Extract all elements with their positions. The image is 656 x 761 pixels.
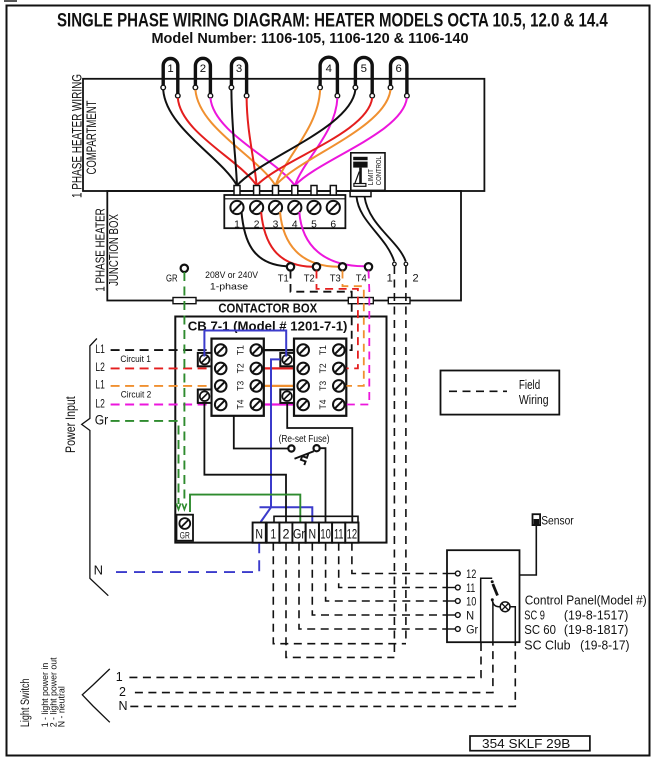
svg-text:2: 2	[283, 526, 290, 541]
svg-text:Field: Field	[519, 377, 540, 392]
svg-text:Power Input: Power Input	[63, 396, 78, 453]
svg-text:L2: L2	[95, 362, 105, 374]
svg-text:CONTROL: CONTROL	[376, 156, 383, 185]
svg-text:Wiring: Wiring	[519, 392, 549, 407]
svg-text:CONTACTOR BOX: CONTACTOR BOX	[218, 301, 317, 316]
svg-text:T4: T4	[236, 400, 247, 410]
svg-text:1: 1	[271, 526, 277, 541]
svg-text:Gr: Gr	[95, 412, 109, 427]
svg-text:N: N	[118, 699, 127, 713]
svg-text:2: 2	[119, 685, 126, 699]
svg-text:6: 6	[396, 63, 402, 75]
svg-text:N: N	[94, 563, 103, 578]
svg-text:JUNCTION BOX: JUNCTION BOX	[106, 214, 121, 286]
svg-text:SC Club: SC Club	[524, 637, 570, 652]
svg-text:12: 12	[466, 569, 476, 581]
svg-text:1: 1	[387, 273, 393, 285]
svg-text:T2: T2	[236, 363, 247, 373]
svg-text:208V or 240V: 208V or 240V	[205, 270, 258, 281]
svg-text:4: 4	[292, 220, 298, 231]
svg-text:T3: T3	[330, 273, 341, 285]
svg-text:L1: L1	[95, 344, 105, 356]
svg-text:T1: T1	[278, 273, 289, 285]
svg-text:Circuit 1: Circuit 1	[120, 354, 151, 365]
svg-text:Control Panel(Model #): Control Panel(Model #)	[525, 592, 647, 607]
svg-text:T4: T4	[356, 273, 367, 285]
svg-text:SINGLE PHASE WIRING DIAGRAM: H: SINGLE PHASE WIRING DIAGRAM: HEATER MODE…	[57, 10, 608, 31]
svg-text:1: 1	[116, 670, 123, 684]
svg-text:2: 2	[254, 220, 260, 231]
svg-text:SC 9: SC 9	[524, 607, 545, 622]
svg-text:11: 11	[334, 526, 344, 541]
svg-text:N - neutral: N - neutral	[57, 686, 67, 727]
svg-text:3: 3	[236, 63, 242, 75]
svg-text:Light Switch: Light Switch	[20, 679, 32, 728]
svg-text:N: N	[466, 610, 474, 622]
svg-text:Circuit 2: Circuit 2	[121, 389, 152, 400]
svg-text:L1: L1	[95, 380, 105, 392]
svg-text:SC 60: SC 60	[524, 622, 556, 637]
svg-text:GR: GR	[166, 273, 178, 285]
svg-text:LIMIT: LIMIT	[368, 168, 375, 185]
svg-text:(19-8-1817): (19-8-1817)	[564, 622, 629, 637]
svg-text:5: 5	[361, 63, 367, 75]
svg-text:Model Number: 1106-105, 1106-1: Model Number: 1106-105, 1106-120 & 1106-…	[152, 31, 469, 47]
svg-text:1-phase: 1-phase	[210, 281, 248, 292]
svg-text:5: 5	[311, 220, 317, 231]
svg-text:T1: T1	[236, 345, 247, 355]
svg-text:(19-8-1517): (19-8-1517)	[564, 607, 629, 622]
svg-text:2: 2	[412, 273, 418, 285]
svg-text:2: 2	[200, 63, 206, 75]
svg-text:Gr: Gr	[466, 624, 478, 636]
svg-text:T3: T3	[236, 381, 247, 391]
svg-text:6: 6	[330, 220, 336, 231]
svg-text:(19-8-17): (19-8-17)	[580, 637, 629, 652]
svg-text:10: 10	[320, 526, 330, 541]
svg-text:Gr: Gr	[293, 526, 305, 541]
svg-text:N: N	[309, 526, 317, 541]
svg-text:COMPARTMENT: COMPARTMENT	[84, 101, 99, 175]
svg-text:L2: L2	[95, 398, 105, 410]
svg-text:T2: T2	[318, 363, 329, 373]
svg-text:11: 11	[466, 583, 475, 595]
svg-text:GR: GR	[180, 531, 190, 541]
svg-text:T3: T3	[318, 381, 329, 391]
svg-text:1: 1	[167, 63, 173, 75]
svg-text:N: N	[255, 526, 263, 541]
svg-text:T1: T1	[318, 345, 329, 355]
svg-text:Sensor: Sensor	[541, 514, 574, 528]
svg-text:1 PHASE HEATER WIRING: 1 PHASE HEATER WIRING	[70, 74, 85, 198]
svg-text:1: 1	[234, 220, 240, 231]
svg-text:4: 4	[326, 63, 332, 75]
svg-text:10: 10	[466, 596, 476, 608]
svg-text:T4: T4	[318, 400, 329, 410]
svg-text:(Re-set Fuse): (Re-set Fuse)	[279, 434, 330, 445]
svg-text:354 SKLF 29B: 354 SKLF 29B	[482, 736, 570, 751]
svg-text:3: 3	[273, 220, 279, 231]
svg-text:T2: T2	[304, 273, 315, 285]
svg-text:12: 12	[347, 526, 358, 541]
